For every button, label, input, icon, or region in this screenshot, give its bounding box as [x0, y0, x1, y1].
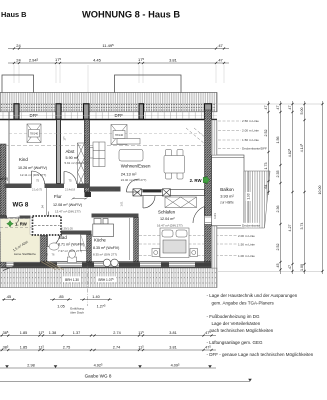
svg-text:Lage der Verteilerkästen: Lage der Verteilerkästen: [212, 321, 261, 326]
top band bottom line: [0, 119, 217, 121]
svg-text:1.38: 1.38: [49, 331, 56, 335]
bath tub / shower: [81, 235, 87, 251]
vertical dim line 4: [304, 101, 306, 274]
svg-text:1.37: 1.37: [73, 331, 80, 335]
dimension extension lines to roof band: [14, 65, 224, 92]
svg-text:.47: .47: [288, 106, 292, 111]
svg-text:.94: .94: [41, 205, 45, 209]
svg-text:2.74: 2.74: [113, 331, 120, 335]
BRH 1.30 label: [63, 276, 81, 282]
nightstand left: [152, 249, 160, 257]
svg-text:.64: .64: [264, 185, 268, 190]
kitchen block: [93, 219, 114, 237]
svg-text:7.37 m² (DIN 277): 7.37 m² (DIN 277): [58, 249, 82, 253]
svg-text:1. RW: 1. RW: [15, 222, 28, 227]
dimension row D: [0, 367, 216, 369]
svg-text:.47: .47: [217, 43, 223, 48]
svg-text:.85: .85: [58, 295, 63, 299]
bottom wall window glazing lines: [4, 264, 195, 266]
svg-text:Abst: Abst: [66, 149, 76, 154]
svg-text:2.14x0.8: 2.14x0.8: [105, 188, 116, 192]
svg-text:12.11 m² (DIN 277): 12.11 m² (DIN 277): [20, 173, 46, 177]
svg-text:8.35 m² (DIN 277): 8.35 m² (DIN 277): [93, 253, 117, 257]
wall Abst/Wohnen: [85, 120, 90, 193]
door Balkon: [193, 207, 205, 225]
dormer outline 2 (Gaube middle): [115, 75, 182, 93]
dining table with chairs: [164, 150, 185, 180]
svg-text:3.81: 3.81: [169, 331, 176, 335]
svg-text:2.39/1.05: 2.39/1.05: [61, 227, 73, 231]
dimension row E (bottom line): [0, 381, 250, 383]
svg-text:DFF: DFF: [115, 113, 124, 118]
dashed 2.50m line across top rooms: [9, 133, 204, 135]
door Kind: [32, 171, 45, 184]
dotted rows bottom band: [1, 273, 216, 284]
svg-text:.47: .47: [288, 265, 292, 270]
svg-text:24.13 m²: 24.13 m²: [121, 172, 137, 177]
svg-text:8.71 m² (WoFlV): 8.71 m² (WoFlV): [58, 243, 84, 247]
svg-text:16.47 m² (DIN 277): 16.47 m² (DIN 277): [157, 224, 183, 228]
svg-text:Gaube WG 8: Gaube WG 8: [85, 374, 112, 379]
svg-text:5.90 m²: 5.90 m²: [66, 156, 79, 160]
thin rails of dash band: [0, 102, 217, 104]
bottom wall inner line: [0, 261, 212, 263]
svg-text:10.26 m² (WoFlV): 10.26 m² (WoFlV): [18, 166, 47, 170]
svg-text:12.04 m²: 12.04 m²: [160, 217, 175, 221]
svg-text:78/140: 78/140: [30, 132, 39, 136]
svg-text:75: 75: [36, 179, 40, 183]
dimension row C: [0, 349, 216, 351]
svg-text:2.75: 2.75: [63, 345, 70, 349]
dimension row 2 (top, y=63): [8, 57, 229, 64]
washbasin: [49, 243, 59, 250]
svg-text:DFF: DFF: [30, 113, 39, 118]
svg-text:Schlafen: Schlafen: [158, 210, 176, 215]
height lines below balcony: [139, 235, 237, 237]
svg-text:2.50 m Linie: 2.50 m Linie: [242, 119, 259, 123]
balcony slab: [212, 155, 245, 228]
coffee table: [119, 150, 143, 162]
svg-text:2.00 m Linie: 2.00 m Linie: [238, 234, 255, 238]
svg-text:Bad: Bad: [59, 235, 67, 240]
svg-text:10.00: 10.00: [318, 186, 322, 195]
wall Kueche/Schlafen: [134, 218, 139, 263]
wall Schlafen top with X posts: [133, 189, 205, 196]
wall end post Abst/Wohnen: [85, 192, 92, 197]
svg-text:Kind: Kind: [19, 157, 28, 162]
toilet: [68, 250, 77, 263]
svg-text:.47: .47: [264, 106, 268, 111]
door Schlafen: [143, 196, 155, 208]
svg-text:24: 24: [16, 43, 21, 48]
svg-text:2.74: 2.74: [113, 345, 120, 349]
height line labels right of top band: [218, 120, 241, 122]
svg-text:- Lage der Haustechnik und der: - Lage der Haustechnik und der Ausparung…: [207, 293, 298, 298]
svg-text:Küche: Küche: [94, 238, 107, 243]
wall Flur low (left, with door opening): [0, 216, 7, 219]
svg-text:.45: .45: [276, 264, 280, 269]
vertical dim line 2: [280, 101, 282, 274]
balcony roof overhang hatch: [244, 171, 270, 228]
vertical dim line 5: [322, 101, 324, 274]
svg-text:2. RW: 2. RW: [190, 178, 203, 183]
svg-text:.45: .45: [6, 295, 11, 299]
nightstand right: [190, 249, 198, 257]
svg-text:1.00 m Linie: 1.00 m Linie: [238, 254, 255, 258]
dimension row B: [0, 335, 216, 337]
svg-text:BRH 1.075: BRH 1.075: [98, 278, 114, 282]
dormer outline 1 (Gaube left): [2, 75, 34, 93]
svg-text:2.36: 2.36: [276, 206, 280, 213]
svg-text:.47: .47: [217, 58, 223, 63]
dashed lines lower left area: [0, 218, 30, 220]
svg-text:über Dach: über Dach: [70, 311, 84, 315]
svg-text:75: 75: [68, 179, 72, 183]
svg-text:1.05: 1.05: [57, 305, 64, 309]
svg-text:2.52: 2.52: [276, 244, 280, 251]
svg-text:1.50 m Linie: 1.50 m Linie: [238, 242, 255, 246]
svg-text:1.01: 1.01: [213, 213, 217, 219]
roof hatch band bottom: [0, 268, 217, 288]
dashed Deckenkante line across top rooms: [5, 145, 204, 147]
wall Bad top with door opening: [40, 231, 47, 235]
svg-text:nach technischen Möglichkeiten: nach technischen Möglichkeiten: [210, 328, 274, 333]
svg-text:1.93: 1.93: [247, 193, 251, 199]
svg-text:5.91 m² (DIN 277): 5.91 m² (DIN 277): [65, 161, 89, 165]
wall below Kind/Abst with door openings: [5, 184, 90, 189]
BRH 1.07 label: [96, 276, 116, 282]
svg-text:3.81: 3.81: [169, 345, 176, 349]
closet Flur (dashed overhead element): [33, 212, 62, 236]
dashed diagonal roof valley top right: [186, 128, 212, 150]
svg-text:3.93 m²: 3.93 m²: [220, 194, 234, 199]
svg-text:Balkon: Balkon: [220, 187, 234, 192]
tan diagonal hatch at Bad wall base: [41, 262, 64, 271]
wall Kueche top: [92, 214, 139, 218]
door Abst: [64, 171, 77, 184]
svg-text:2.1x0.75: 2.1x0.75: [32, 188, 43, 192]
svg-text:zur Hälfte: zur Hälfte: [220, 201, 234, 205]
vent line Entlueftung: [87, 250, 89, 306]
svg-text:8.35 m² (WoFlV): 8.35 m² (WoFlV): [93, 246, 119, 250]
svg-text:2.98: 2.98: [27, 363, 34, 367]
escape route marker 2. RW: [190, 176, 210, 184]
roof edge diagonal bottom left: [3, 263, 22, 271]
svg-text:1.85: 1.85: [20, 345, 27, 349]
right roof strips: [212, 120, 218, 155]
svg-text:1.40: 1.40: [92, 295, 99, 299]
svg-text:1.00: 1.00: [300, 264, 304, 271]
DFF roof window Kind: [27, 124, 41, 143]
left outer wall: [0, 144, 6, 216]
wall Bad left (thick): [40, 234, 47, 263]
svg-text:3.74: 3.74: [300, 223, 304, 230]
kitchen sink: [103, 259, 118, 266]
right outer wall: [205, 110, 212, 216]
balcony door threshold: [205, 217, 212, 223]
window mullions in top band white strip: [3, 112, 214, 118]
door Abstellraum 1.5m2: [7, 217, 19, 223]
escape route marker 1. RW: [7, 221, 28, 228]
svg-text:WOHNUNG 8 - Haus B: WOHNUNG 8 - Haus B: [82, 10, 180, 20]
svg-text:WG 8: WG 8: [13, 202, 29, 209]
vertical dim line 1: [268, 101, 270, 195]
duct shaft in Abst (X pattern): [78, 143, 85, 187]
svg-text:Deckenkante/DFF: Deckenkante/DFF: [242, 147, 267, 151]
wall jambs in top band: [14, 104, 19, 120]
svg-text:Haus B: Haus B: [1, 10, 26, 19]
door Bad: [48, 235, 60, 247]
bottom wall outer dark band: [2, 267, 212, 270]
svg-text:Flur: Flur: [54, 194, 62, 199]
svg-text:gem. Angabe des TGA-Planers: gem. Angabe des TGA-Planers: [212, 301, 275, 306]
svg-text:- Fußbodenheizung im DG: - Fußbodenheizung im DG: [207, 314, 261, 319]
Deckenkante label below balcony: [241, 223, 260, 228]
svg-text:2 m² (WoFlV): 2 m² (WoFlV): [0, 177, 8, 181]
door Wohnen: [127, 179, 140, 192]
kitchen right counter line: [129, 218, 131, 260]
svg-text:12.08 m² (WoFlV): 12.08 m² (WoFlV): [53, 203, 82, 207]
svg-text:- DFF - genaue Lage nach techn: - DFF - genaue Lage nach technischen Mög…: [207, 352, 314, 357]
svg-text:2.52: 2.52: [264, 130, 268, 137]
dimension row 1 (top, y=48.5): [8, 43, 229, 50]
vertical dim line 3: [292, 101, 294, 274]
svg-text:1.85: 1.85: [20, 331, 27, 335]
wall Kind/Abst: [57, 120, 61, 184]
svg-text:1.01: 1.01: [120, 201, 124, 207]
svg-text:3.81: 3.81: [169, 58, 178, 63]
dim 1.93 inside overhang: [248, 171, 250, 228]
svg-text:24.40 m² (DIN 277): 24.40 m² (DIN 277): [121, 178, 147, 182]
svg-text:5.00: 5.00: [300, 108, 304, 115]
bed: [160, 228, 189, 258]
insulation dash rows top wall: [1, 104, 215, 110]
sofa: [90, 142, 105, 167]
svg-text:78/140: 78/140: [115, 133, 124, 137]
DFF roof window Wohnen: [111, 125, 127, 145]
low storage area 1.5m2 (yellow): [1, 219, 41, 263]
svg-text:BRH 1.30: BRH 1.30: [65, 278, 79, 282]
wardrobe Schlafen: [165, 197, 197, 208]
svg-text:1.56: 1.56: [276, 137, 280, 144]
svg-text:2.35: 2.35: [276, 171, 280, 178]
svg-text:4.27: 4.27: [288, 225, 292, 232]
dimension row A (window dims): [2, 295, 112, 309]
bottom wall jamb blocks: [14, 262, 212, 266]
svg-text:13.47 m² (DIN 277): 13.47 m² (DIN 277): [55, 210, 81, 214]
svg-text:keine Stellfläche: keine Stellfläche: [14, 252, 36, 256]
svg-text:Deckenkante: Deckenkante: [242, 224, 260, 228]
Flur left edge line: [46, 188, 48, 216]
svg-text:1.50 m Linie: 1.50 m Linie: [242, 138, 259, 142]
svg-text:24: 24: [16, 58, 21, 63]
sideboard: [117, 139, 140, 145]
svg-text:2.00 m Linie: 2.00 m Linie: [242, 129, 259, 133]
wall Wohnen/Flur: [90, 187, 121, 192]
svg-text:.47: .47: [276, 106, 280, 111]
wall Bad/Kueche: [87, 235, 92, 263]
svg-text:2.14x0.8: 2.14x0.8: [65, 188, 76, 192]
right extension lines: [218, 103, 323, 105]
svg-text:1.73: 1.73: [264, 163, 268, 170]
svg-text:4.45: 4.45: [93, 58, 102, 63]
kind room left edge line: [8, 112, 10, 184]
svg-text:Wohnen/Essen: Wohnen/Essen: [121, 164, 151, 169]
roof hatch band top: [0, 93, 217, 112]
svg-text:- Lüftungsanlage gem. GEG: - Lüftungsanlage gem. GEG: [207, 340, 264, 345]
